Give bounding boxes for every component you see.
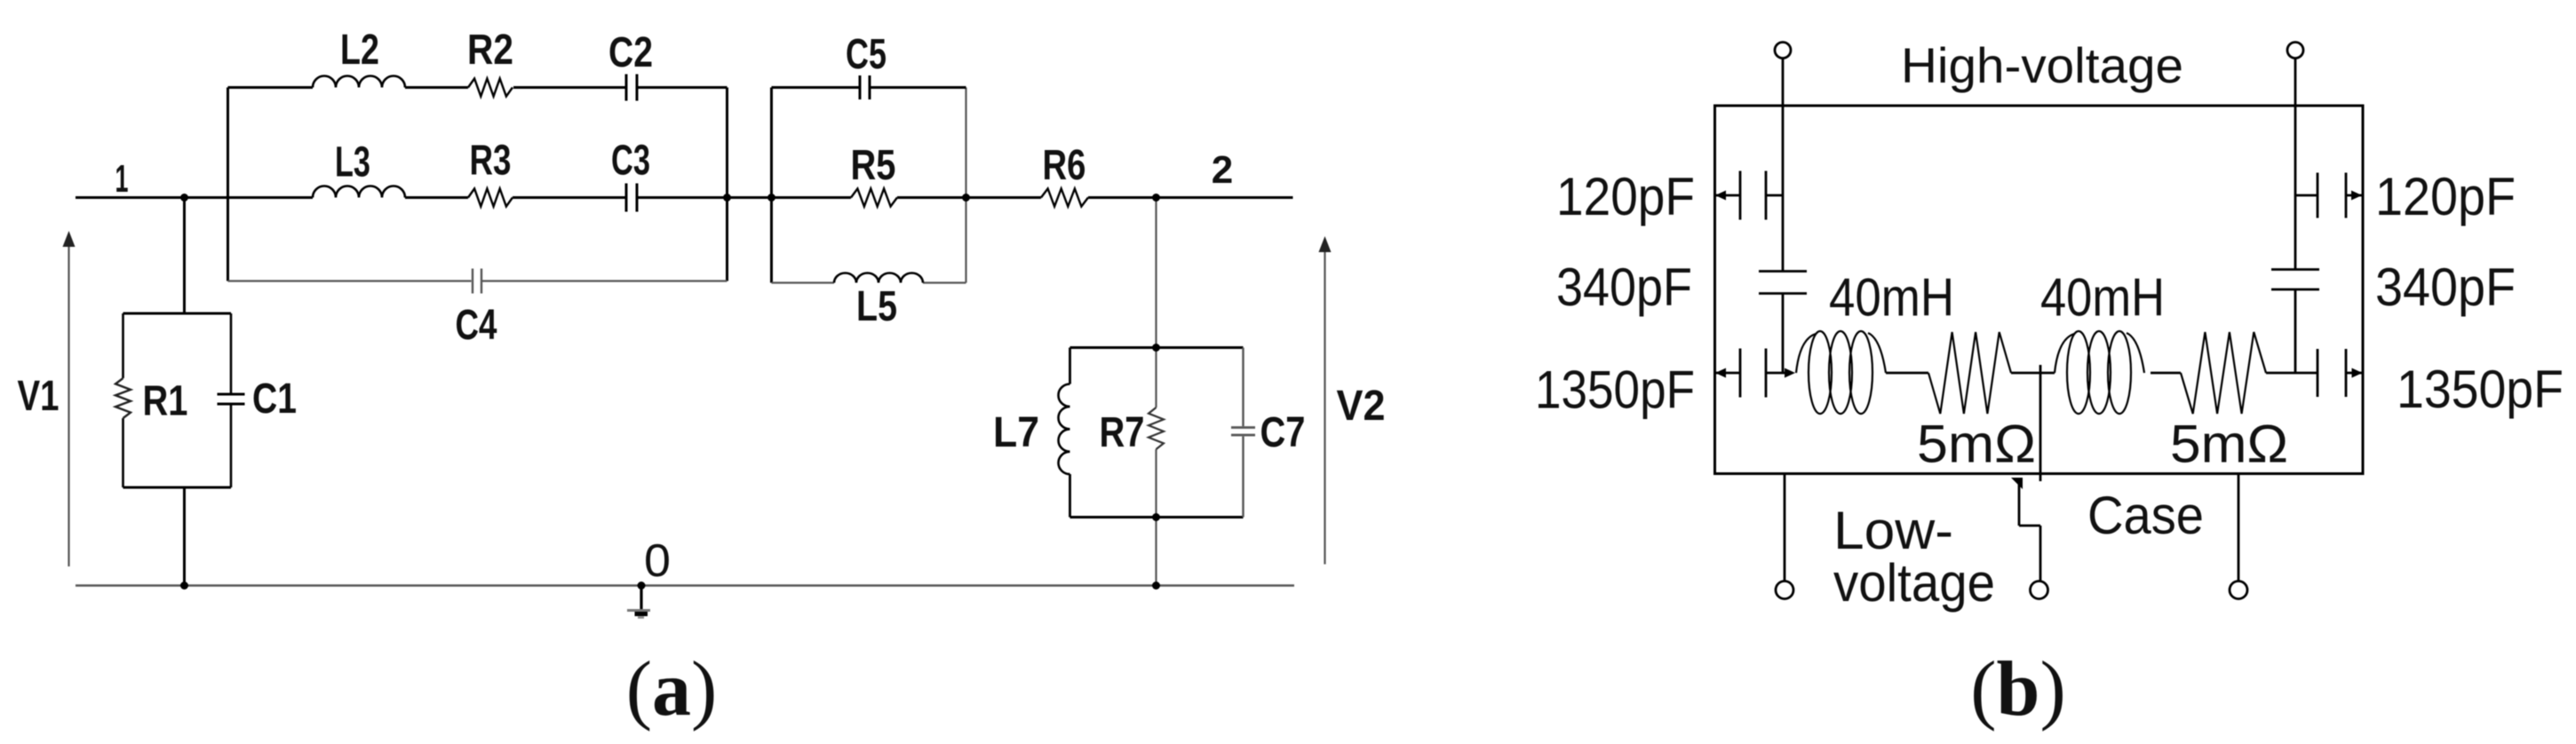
svg-text:C4: C4 (456, 302, 497, 349)
svg-text:340pF: 340pF (2375, 257, 2516, 317)
svg-text:5mΩ: 5mΩ (1917, 415, 2036, 474)
svg-text:Low-: Low- (1833, 501, 1953, 560)
svg-text:R1: R1 (143, 378, 188, 425)
svg-text:1: 1 (115, 157, 129, 201)
svg-text:0: 0 (644, 535, 671, 587)
svg-text:340pF: 340pF (1556, 257, 1692, 317)
svg-text:(b): (b) (1970, 646, 2066, 732)
svg-text:2: 2 (1212, 148, 1233, 192)
svg-text:C7: C7 (1260, 409, 1306, 456)
svg-text:V2: V2 (1337, 383, 1386, 430)
svg-text:R5: R5 (851, 142, 896, 189)
svg-text:C1: C1 (252, 376, 297, 423)
svg-text:40mH: 40mH (2040, 268, 2165, 328)
svg-text:C3: C3 (611, 138, 650, 185)
svg-text:R2: R2 (467, 27, 513, 74)
svg-text:1350pF: 1350pF (1535, 360, 1695, 420)
svg-text:C2: C2 (608, 29, 653, 76)
svg-text:(a): (a) (626, 646, 718, 732)
svg-text:1350pF: 1350pF (2397, 360, 2564, 419)
svg-text:L5: L5 (856, 283, 897, 330)
svg-text:R3: R3 (470, 138, 512, 185)
svg-text:V1: V1 (18, 373, 60, 420)
svg-text:5mΩ: 5mΩ (2170, 415, 2288, 474)
svg-text:L7: L7 (993, 409, 1039, 456)
svg-text:R6: R6 (1043, 142, 1086, 189)
svg-text:40mH: 40mH (1829, 268, 1954, 328)
svg-text:L2: L2 (340, 27, 379, 74)
svg-text:120pF: 120pF (1556, 167, 1695, 226)
svg-text:Case: Case (2087, 486, 2204, 545)
svg-text:High-voltage: High-voltage (1901, 37, 2183, 93)
svg-text:voltage: voltage (1833, 553, 1995, 613)
svg-text:120pF: 120pF (2375, 167, 2516, 226)
svg-text:R7: R7 (1100, 409, 1145, 456)
svg-text:L3: L3 (335, 139, 370, 186)
svg-text:C5: C5 (846, 31, 886, 78)
